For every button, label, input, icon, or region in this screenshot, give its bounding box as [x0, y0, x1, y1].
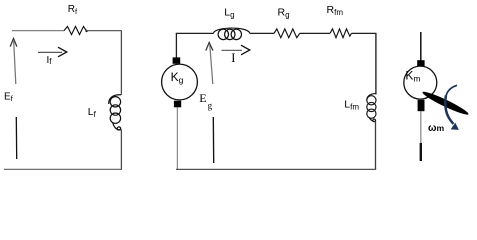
wire motor bottom lead [420, 111, 422, 144]
resistor R_f [64, 26, 86, 34]
brush top of motor Km [417, 60, 424, 67]
wire armature-loop right side lower [375, 121, 377, 170]
svg-text:I: I [231, 51, 235, 65]
wire armature-loop bottom [176, 168, 376, 170]
wire armature-loop top segment 3 [300, 32, 331, 34]
svg-text:Ef: Ef [4, 91, 14, 103]
dc motor Km [404, 66, 437, 99]
wire field-loop right side upper [120, 31, 122, 95]
wire Ef arrow lower segment [15, 117, 17, 159]
wire armature-loop left side [175, 33, 177, 58]
propeller blade on motor shaft [421, 89, 470, 117]
wire field-loop top left [12, 30, 64, 32]
wire Eg arrow lower segment [212, 117, 214, 163]
inductor Lf [109, 95, 121, 130]
svg-text:g: g [208, 101, 213, 111]
rotation arrow (omega m swoosh) [445, 85, 459, 130]
svg-text:E: E [199, 91, 206, 105]
wire armature-loop top segment 2 [250, 32, 275, 34]
arrow I (armature current) [222, 45, 250, 55]
arrow Ef (field voltage, upper shaft) [10, 38, 17, 84]
inductor Lg [214, 28, 250, 40]
motor shaft lower segment [420, 143, 422, 161]
brush top of generator Kg [173, 57, 181, 63]
wire field-loop top right [87, 30, 122, 32]
wire field-loop bottom [4, 168, 122, 170]
wire below generator Kg [176, 107, 178, 169]
inductor Lfm [367, 94, 376, 122]
resistor Rg [274, 29, 300, 38]
wire armature-loop top segment 4 [352, 32, 377, 34]
resistor Rfm [330, 29, 352, 38]
wire motor top lead [420, 32, 422, 62]
junction dot right of Rf [85, 30, 87, 32]
wire field-loop right side lower [120, 129, 122, 170]
arrow Eg (generated emf, upper shaft) [206, 42, 213, 84]
wire armature-loop top segment 1 [176, 32, 214, 34]
wire armature-loop right side upper [375, 33, 377, 95]
brush bottom of motor Km [418, 100, 425, 111]
svg-text:If: If [47, 55, 53, 66]
svg-text:ωm: ωm [428, 123, 444, 134]
dc generator Kg [162, 64, 198, 100]
brush bottom of generator Kg [174, 101, 181, 108]
arrow If (field current) [38, 47, 67, 57]
